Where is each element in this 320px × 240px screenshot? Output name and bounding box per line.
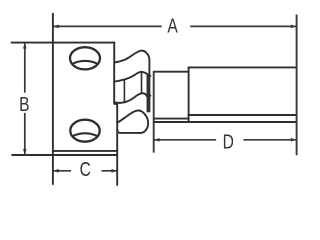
knob middle band bottom edge [114,93,150,103]
barrel left edge [188,67,190,122]
dim line D seg1 [154,139,216,141]
D extension line left / collar left edge [153,72,155,153]
arrow B down [23,149,27,154]
plate bottom edge upper line [53,150,117,152]
barrel internal line [189,114,297,116]
band fold line 1 [123,80,125,103]
arrow D right [291,138,296,142]
collar bottom edge [154,118,189,120]
knob middle band top edge [114,72,150,82]
arrow A right [291,25,296,29]
barrel top edge [189,66,297,68]
hole 1 outer ellipse [70,47,100,69]
svg-text:B: B [19,93,29,116]
svg-text:C: C [80,158,91,181]
band fold line 2 [141,72,143,93]
knob top lobe outline [114,43,149,112]
plate top edge + B extension line [12,42,115,44]
part outlines [12,14,297,185]
arrow A left [53,25,58,29]
knob left face edge [114,63,117,105]
collar top edge [154,71,189,73]
dim line C seg2 [101,170,117,172]
dim line A seg2 [190,25,296,27]
plate bottom edge lower line + B extension line [12,154,117,156]
dim line B seg1 [24,43,26,93]
plate left edge + A/C extension line [52,14,54,184]
dim line A seg1 [53,25,162,27]
arrow C right [112,169,117,173]
arrow B up [23,43,27,48]
plate right edge lower + C extension line [116,104,118,185]
dim line B seg2 [24,113,26,155]
arrow C left [53,169,58,173]
knob rim front vertical [147,75,149,112]
arrowheads [23,25,296,173]
dimension lines [25,15,297,171]
knob bottom lobe [117,111,148,133]
hole 2 outer ellipse [70,120,99,142]
hole 1 inner arc [73,61,98,64]
hole 2 inner arc [73,133,98,136]
barrel bottom edge [154,121,297,123]
dim line C seg1 [53,170,71,172]
dim line D seg2 [243,139,296,141]
svg-text:D: D [223,131,234,154]
arrow D left [154,138,159,142]
A extension line right + barrel right edge [296,15,298,156]
svg-text:A: A [167,15,178,38]
